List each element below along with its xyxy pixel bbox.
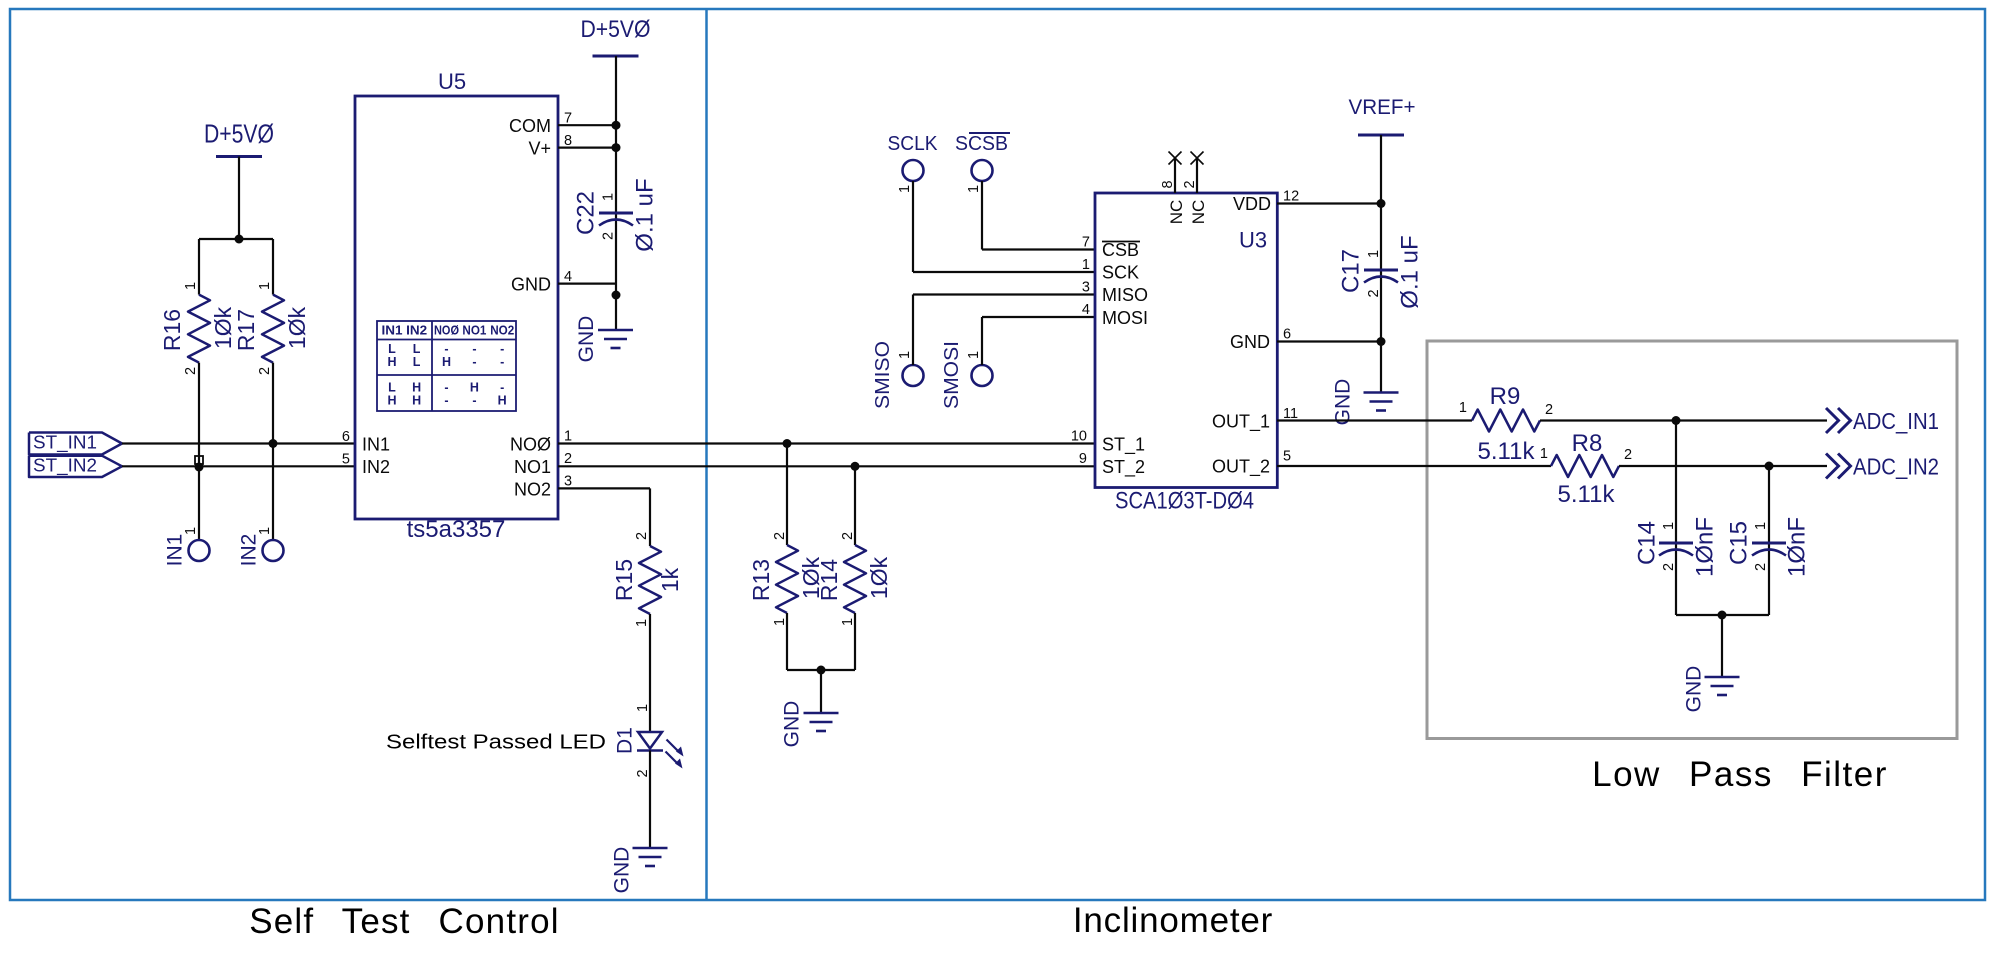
ground symbol below C17 — [1364, 391, 1399, 394]
svg-text:U5: U5 — [438, 69, 466, 94]
capacitor C22 — [599, 212, 633, 215]
wire R13/R14 ground rail — [787, 669, 855, 671]
svg-text:-: - — [472, 394, 476, 408]
svg-text:ADC_IN1: ADC_IN1 — [1853, 408, 1939, 434]
wire R9 to ADC_IN1 — [1540, 419, 1827, 421]
svg-text:U3: U3 — [1239, 228, 1267, 253]
svg-text:ts5a3357: ts5a3357 — [407, 516, 506, 543]
svg-text:NO2: NO2 — [514, 479, 551, 499]
svg-text:C17: C17 — [1337, 249, 1364, 293]
net label flag ST_IN2 — [29, 456, 122, 477]
svg-text:5.11k: 5.11k — [1478, 438, 1536, 465]
svg-text:1: 1 — [257, 527, 273, 535]
svg-text:3: 3 — [564, 474, 572, 490]
svg-text:2: 2 — [772, 532, 788, 540]
junction ST_1 / R13 — [783, 439, 792, 448]
svg-text:CSB: CSB — [1102, 240, 1139, 260]
svg-text:VREF+: VREF+ — [1349, 96, 1416, 119]
svg-text:C22: C22 — [572, 191, 599, 235]
wire C15 lead — [1768, 466, 1770, 615]
resistor R8 — [1551, 455, 1619, 477]
svg-text:ADC_IN2: ADC_IN2 — [1853, 454, 1939, 480]
svg-text:R9: R9 — [1490, 383, 1521, 410]
wire R16 pin2 down to IN1 connector — [198, 363, 200, 540]
svg-text:1: 1 — [772, 618, 788, 626]
svg-text:-: - — [472, 355, 476, 369]
junction U3.GND / C17 — [1377, 337, 1386, 346]
svg-text:Self Test Control: Self Test Control — [249, 902, 560, 941]
svg-text:D+5VØ: D+5VØ — [581, 16, 651, 43]
svg-text:R17: R17 — [233, 309, 259, 351]
svg-text:H: H — [387, 355, 396, 369]
connector IN1 — [189, 540, 210, 561]
no-connect X mark 2 — [1191, 152, 1204, 165]
svg-text:Ø.1 uF: Ø.1 uF — [631, 178, 658, 251]
junction ST_IN1 / R17 — [269, 439, 278, 448]
wire NC stub 2 — [1196, 159, 1198, 193]
svg-text:1: 1 — [1082, 257, 1090, 273]
wire R13 to gnd rail — [786, 613, 788, 670]
svg-text:2: 2 — [1182, 180, 1198, 188]
svg-text:SMISO: SMISO — [872, 341, 894, 409]
svg-text:OUT_2: OUT_2 — [1212, 457, 1270, 478]
wire U5.V+ stub — [558, 147, 616, 149]
resistor R14 — [844, 545, 866, 613]
ground symbol below R13 R14 — [804, 712, 839, 715]
wire ST_IN2 to U5.IN2 — [122, 465, 355, 467]
svg-text:1Øk: 1Øk — [866, 556, 892, 599]
ground symbol below D1 — [633, 847, 668, 850]
svg-text:-: - — [500, 381, 504, 395]
wire SMOSI to U3.MOSI — [982, 316, 1095, 318]
svg-text:1: 1 — [897, 185, 913, 193]
wire U3.VDD stub — [1277, 202, 1381, 204]
svg-text:3: 3 — [1082, 280, 1090, 296]
svg-text:NOØ: NOØ — [434, 324, 459, 338]
Low Pass Filter group box — [1427, 341, 1957, 739]
svg-text:SCLK: SCLK — [888, 133, 939, 155]
svg-text:1: 1 — [1661, 522, 1677, 530]
svg-text:1: 1 — [897, 351, 913, 359]
svg-text:2: 2 — [634, 532, 650, 540]
svg-text:7: 7 — [1082, 235, 1090, 251]
svg-text:4: 4 — [1082, 302, 1090, 318]
svg-text:H: H — [442, 355, 451, 369]
wire U3.GND stub — [1277, 340, 1381, 342]
junction COM — [612, 121, 621, 130]
truth table U5 — [377, 321, 516, 411]
wire ST_IN1 to U5.IN1 — [122, 442, 355, 444]
wire D+5V0 down through C22 to GND — [615, 56, 617, 330]
junction GND net below pin 4 — [612, 291, 621, 300]
svg-text:SCK: SCK — [1102, 263, 1139, 283]
wire U5.NO0 to U3.ST_1 — [558, 442, 1095, 444]
wire U5.NO1 to U3.ST_2 — [558, 465, 1095, 467]
svg-text:COM: COM — [509, 116, 551, 136]
svg-text:Ø.1 uF: Ø.1 uF — [1396, 235, 1423, 308]
svg-text:-: - — [444, 342, 448, 356]
LED D1 — [637, 732, 679, 764]
wire D1 to GND — [649, 751, 651, 849]
wire SMISO up — [912, 295, 914, 366]
svg-text:NC: NC — [1189, 200, 1208, 225]
svg-text:SMOSI: SMOSI — [941, 341, 963, 409]
wire D+5V0 to R16/R17 — [238, 157, 240, 240]
connector SMOSI — [972, 365, 993, 386]
svg-text:R14: R14 — [816, 559, 842, 601]
svg-text:8: 8 — [1160, 180, 1176, 188]
svg-text:6: 6 — [342, 429, 350, 445]
svg-text:1: 1 — [1459, 400, 1467, 416]
wire SCSB to U3.CSB — [982, 248, 1095, 250]
wire rail to ground LPF — [1721, 615, 1723, 677]
svg-text:GND: GND — [1230, 332, 1270, 352]
wire C14 lead — [1675, 421, 1677, 616]
svg-text:OUT_1: OUT_1 — [1212, 412, 1270, 433]
wire U5.GND stub — [558, 283, 616, 285]
svg-text:1ØnF: 1ØnF — [1783, 517, 1810, 577]
svg-text:2: 2 — [1545, 402, 1553, 418]
wire R16 pin1 lead — [198, 239, 200, 295]
resistor R13 — [776, 545, 798, 613]
svg-text:NO1: NO1 — [462, 324, 486, 338]
svg-text:2: 2 — [635, 769, 651, 777]
power bar VREF+ — [1358, 134, 1404, 137]
svg-text:-: - — [500, 355, 504, 369]
svg-text:1: 1 — [1540, 446, 1548, 462]
svg-text:5.11k: 5.11k — [1558, 481, 1616, 508]
svg-text:L: L — [413, 342, 421, 356]
svg-text:IN2: IN2 — [237, 534, 260, 567]
wire ST_2 to R14 — [854, 466, 856, 545]
svg-text:2: 2 — [1661, 563, 1677, 571]
wire U3.OUT_1 to R9 — [1277, 419, 1472, 421]
wire R14 to gnd rail — [854, 613, 856, 670]
svg-text:2: 2 — [1753, 563, 1769, 571]
svg-text:Selftest Passed LED: Selftest Passed LED — [386, 731, 606, 754]
wire rail to ground — [820, 670, 822, 713]
capacitor C14 — [1659, 542, 1693, 545]
svg-text:2: 2 — [601, 232, 617, 240]
svg-text:H: H — [498, 394, 507, 408]
svg-text:6: 6 — [1283, 327, 1291, 343]
wire C14/C15 ground rail — [1676, 614, 1769, 616]
svg-text:VDD: VDD — [1233, 194, 1271, 214]
svg-text:1: 1 — [840, 618, 856, 626]
unconnected marker square on ST_IN2 — [195, 456, 203, 464]
junction ST_2 / R14 — [851, 462, 860, 471]
svg-text:D+5VØ: D+5VØ — [204, 119, 274, 149]
svg-text:Low Pass Filter: Low Pass Filter — [1592, 755, 1888, 794]
resistor R16 — [188, 295, 210, 363]
svg-text:IN1: IN1 — [362, 435, 390, 455]
svg-text:IN2: IN2 — [362, 457, 390, 477]
svg-text:L: L — [388, 342, 396, 356]
svg-text:NOØ: NOØ — [510, 435, 551, 455]
svg-text:V+: V+ — [528, 139, 551, 159]
wire R8 to ADC_IN2 — [1619, 465, 1827, 467]
svg-text:-: - — [444, 381, 448, 395]
junction V+ — [612, 143, 621, 152]
svg-text:IN1: IN1 — [382, 324, 403, 338]
svg-text:5: 5 — [1283, 449, 1291, 465]
connector SCSB — [972, 160, 993, 181]
svg-text:NO1: NO1 — [514, 457, 551, 477]
capacitor C15 — [1752, 542, 1786, 545]
svg-text:1: 1 — [257, 282, 273, 290]
svg-text:C15: C15 — [1725, 521, 1752, 565]
svg-text:H: H — [387, 394, 396, 408]
resistor R15 — [639, 546, 661, 614]
junction gnd rail — [817, 666, 826, 675]
svg-text:GND: GND — [511, 275, 551, 295]
svg-text:1Øk: 1Øk — [284, 306, 310, 349]
junction ST_IN2 / R16 — [195, 463, 204, 472]
resistor R17 — [262, 295, 284, 363]
svg-text:GND: GND — [1682, 666, 1705, 713]
connector IN2 — [263, 540, 284, 561]
wire R17 pin1 lead — [272, 239, 274, 295]
svg-text:12: 12 — [1283, 189, 1299, 205]
svg-text:R13: R13 — [748, 559, 774, 601]
svg-text:R15: R15 — [611, 559, 637, 601]
svg-text:1: 1 — [634, 619, 650, 627]
svg-text:R16: R16 — [159, 309, 185, 351]
svg-text:1: 1 — [601, 193, 617, 201]
svg-text:ST_1: ST_1 — [1102, 435, 1145, 456]
junction ADC_IN1 / C14 — [1672, 416, 1681, 425]
svg-text:SCSB: SCSB — [955, 133, 1008, 155]
svg-text:2: 2 — [257, 367, 273, 375]
svg-text:MOSI: MOSI — [1102, 308, 1148, 328]
svg-text:-: - — [444, 394, 448, 408]
net label flag ST_IN1 — [29, 433, 122, 455]
wire U5.NO2 horizontal — [558, 487, 650, 489]
svg-text:1: 1 — [183, 527, 199, 535]
svg-text:1: 1 — [564, 429, 572, 445]
capacitor C17 — [1364, 269, 1398, 272]
junction ADC_IN2 / C15 — [1765, 462, 1774, 471]
svg-text:GND: GND — [780, 701, 803, 748]
junction VDD / VREF+ — [1377, 199, 1386, 208]
svg-text:C14: C14 — [1633, 521, 1660, 565]
connector SMISO — [903, 365, 924, 386]
svg-text:1: 1 — [1366, 250, 1382, 258]
svg-text:GND: GND — [1331, 379, 1354, 426]
wire VREF+ down through C17 to ground — [1380, 135, 1382, 393]
wire U5.COM stub — [558, 124, 616, 126]
wire SCLK down — [912, 181, 914, 272]
svg-text:1k: 1k — [657, 567, 683, 592]
wire R16 top to R17 top — [199, 238, 273, 240]
svg-text:R8: R8 — [1572, 430, 1603, 457]
power bar D+5V0 right — [593, 55, 639, 58]
connector SCLK — [903, 160, 924, 181]
junction D+5V0 / R16 R17 — [235, 235, 244, 244]
svg-text:2: 2 — [840, 532, 856, 540]
svg-text:ST_IN2: ST_IN2 — [33, 455, 97, 477]
svg-text:2: 2 — [183, 367, 199, 375]
svg-text:ST_IN1: ST_IN1 — [33, 432, 97, 454]
svg-text:L: L — [413, 355, 421, 369]
svg-text:D1: D1 — [613, 727, 636, 754]
wire R15 to LED D1 — [649, 614, 651, 732]
wire NC stub 1 — [1174, 159, 1176, 193]
svg-text:NO2: NO2 — [490, 324, 514, 338]
wire R17 pin2 down to IN2 connector — [272, 363, 274, 540]
svg-text:2: 2 — [564, 451, 572, 467]
resistor R9 — [1472, 410, 1540, 432]
svg-text:SCA1Ø3T-DØ4: SCA1Ø3T-DØ4 — [1115, 488, 1254, 515]
svg-text:9: 9 — [1079, 451, 1087, 467]
svg-text:IN1: IN1 — [163, 534, 186, 567]
wire SCSB down — [981, 181, 983, 250]
svg-text:H: H — [470, 381, 479, 395]
svg-text:NC: NC — [1167, 200, 1186, 225]
junction LPF gnd rail — [1718, 611, 1727, 620]
svg-text:GND: GND — [610, 847, 633, 894]
svg-text:Inclinometer: Inclinometer — [1073, 901, 1273, 940]
svg-text:1: 1 — [183, 282, 199, 290]
svg-text:10: 10 — [1071, 429, 1087, 445]
svg-text:5: 5 — [342, 452, 350, 468]
svg-text:MISO: MISO — [1102, 285, 1148, 305]
svg-text:-: - — [500, 342, 504, 356]
wire U3.OUT_2 to R8 — [1277, 465, 1551, 467]
net arrow ADC_IN2 — [1826, 454, 1851, 479]
section divider line — [705, 9, 708, 900]
wire SMISO to U3.MISO — [913, 293, 1095, 295]
ground symbol Low Pass Filter — [1705, 676, 1740, 679]
ground symbol below C22 — [598, 329, 633, 332]
svg-text:1: 1 — [966, 185, 982, 193]
svg-text:H: H — [412, 381, 421, 395]
net arrow ADC_IN1 — [1826, 408, 1851, 433]
svg-text:GND: GND — [575, 316, 598, 363]
svg-text:1: 1 — [635, 704, 651, 712]
svg-text:L: L — [388, 381, 396, 395]
wire ST_1 to R13 — [786, 444, 788, 546]
wire SCLK to U3.SCK — [913, 271, 1095, 273]
svg-text:2: 2 — [1624, 447, 1632, 463]
svg-text:1: 1 — [966, 351, 982, 359]
wire U5.NO2 down to R15 — [649, 488, 651, 546]
svg-text:-: - — [472, 342, 476, 356]
no-connect X mark 1 — [1169, 152, 1182, 165]
svg-text:H: H — [412, 394, 421, 408]
svg-text:ST_2: ST_2 — [1102, 457, 1145, 478]
svg-text:2: 2 — [1366, 289, 1382, 297]
power bar D+5V0 left — [216, 155, 262, 158]
svg-text:1ØnF: 1ØnF — [1691, 517, 1718, 577]
op-amp U5 ts5a3357 box — [355, 96, 558, 519]
IC U3 SCA103T-D04 box — [1095, 193, 1277, 488]
svg-text:1: 1 — [1753, 522, 1769, 530]
wire SMOSI up — [981, 317, 983, 365]
svg-text:IN2: IN2 — [406, 324, 427, 338]
